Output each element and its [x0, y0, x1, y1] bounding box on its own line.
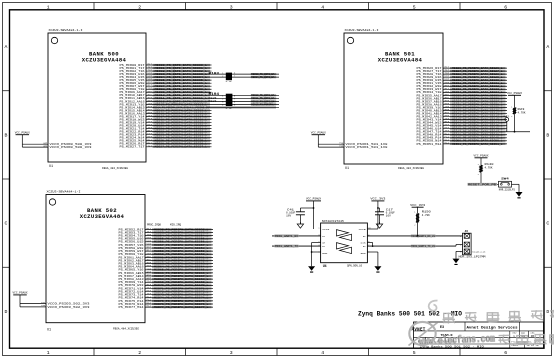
wire net MIO18 bank 500 row 18	[120, 117, 212, 121]
wire net MIO05 bank 500 row 5	[120, 78, 212, 82]
svg-text:VCC_3V3: VCC_3V3	[410, 204, 426, 207]
IC BANK 501 title	[378, 51, 423, 64]
wire net MIO24 bank 500 row 24	[120, 135, 212, 139]
svg-text:XCZU3-SBVA484-1-I: XCZU3-SBVA484-1-I	[47, 190, 82, 193]
title block frame	[414, 322, 544, 348]
border row ticks left	[3, 91, 10, 268]
wire net MIO38 bank 501 row 12	[417, 102, 508, 106]
ground (C17)	[376, 222, 382, 228]
svg-text:3: 3	[230, 5, 233, 11]
wire net MIO45 bank 501 row 19	[417, 123, 508, 127]
wire net MIO68 bank 502 row 16	[119, 277, 214, 281]
wire net MIO49 bank 501 row 23	[417, 135, 508, 139]
svg-text:U1: U1	[47, 328, 51, 332]
svg-text:6: 6	[504, 350, 507, 356]
svg-text:5: 5	[413, 350, 416, 356]
wire net MIO27 bank 501 row 1	[417, 69, 508, 73]
wire net MIO40 bank 501 row 14	[417, 108, 508, 112]
svg-text:VCC_3V3: VCC_3V3	[370, 198, 386, 201]
wire net MIO0_UART1_RX into U4 A1	[272, 235, 321, 238]
wire net MIO36 bank 501 row 10	[417, 96, 508, 100]
ground (U4 right)	[374, 266, 381, 272]
wire net MIO06 bank 500 row 6	[120, 81, 212, 85]
svg-text:AVNET: AVNET	[412, 329, 426, 333]
svg-text:VCCO_PSIO0_500_3V3: VCCO_PSIO0_500_3V3	[50, 146, 93, 149]
wire net MIO58 bank 502 row 6	[119, 246, 214, 250]
svg-text:4: 4	[321, 5, 324, 11]
Avnet logo	[409, 322, 438, 346]
svg-text:MIO0_UART1_RX: MIO0_UART1_RX	[275, 235, 298, 238]
wire net MIO39 bank 501 row 13	[417, 105, 508, 109]
wire net MIO04 bank 500 row 4	[120, 75, 280, 79]
border column ticks bottom	[94, 348, 460, 355]
wire net MIO34 bank 501 row 8	[417, 90, 508, 94]
wire net MIO02 bank 500 row 2	[120, 69, 212, 73]
wire U4 right GND pin to ground	[367, 252, 378, 266]
svg-text:MIO_UART_LS_1V8: MIO_UART_LS_1V8	[472, 250, 485, 253]
svg-text:XCZU3EGVA484: XCZU3EGVA484	[378, 57, 423, 64]
wire net MIO30 bank 501 row 4	[417, 78, 508, 82]
wire net MIO35 bank 501 row 9	[417, 93, 508, 97]
wire net MIO53 bank 502 row 1	[119, 230, 214, 234]
power symbol VCC_3V3 (U4 B side)	[370, 198, 386, 229]
wire net MIO11 bank 500 row 11	[120, 96, 280, 100]
wire net MIO1_UART1_TX into U4 A2	[272, 245, 321, 248]
wire net MIO31 bank 501 row 5	[417, 81, 508, 85]
svg-text:XCZU3EGVA484: XCZU3EGVA484	[82, 57, 127, 64]
IC U1 BANK 502 body	[46, 195, 145, 323]
capacitor C41	[286, 208, 305, 217]
svg-text:QFN_SON_10: QFN_SON_10	[347, 265, 363, 268]
power symbol VCC_PSAUX (U4 A side)	[306, 198, 322, 229]
svg-text:XCZU3EGVA484: XCZU3EGVA484	[80, 213, 125, 220]
svg-text:D: D	[5, 309, 8, 315]
U4 buffer triangles channel 1	[337, 230, 352, 241]
wire net MIO08 bank 500 row 8	[120, 87, 212, 91]
svg-text:U4: U4	[323, 264, 327, 268]
svg-text:C: C	[5, 221, 8, 227]
power symbol VCC_PSAUX (R140 pullup)	[474, 155, 490, 166]
resistor R140	[478, 163, 494, 176]
svg-text:Avnet Design Services: Avnet Design Services	[467, 326, 518, 331]
svg-text:PS_MIO77_M14: PS_MIO77_M14	[119, 306, 145, 309]
wire VCCA branch to C41	[300, 207, 314, 212]
svg-text:U1: U1	[49, 165, 53, 169]
wire net MIO67 bank 502 row 15	[119, 274, 214, 278]
wire net MIO29 bank 501 row 3	[417, 75, 508, 79]
resistor R150	[414, 211, 431, 227]
IC U4 SN74AVC2T245 body	[321, 220, 368, 268]
wire net MIO55 bank 502 row 3	[119, 236, 214, 240]
svg-text:MIO1_UART1_TX: MIO1_UART1_TX	[275, 245, 298, 248]
svg-text:VCCB: VCCB	[359, 228, 367, 231]
wire net MIO00 bank 500 row 0	[120, 63, 212, 67]
power symbol VCC_PSAUX (R23 pullup)	[507, 92, 523, 108]
svg-text:6: 6	[504, 5, 507, 11]
svg-text:1: 1	[47, 5, 50, 11]
ground (U4 left)	[308, 266, 315, 272]
wire net MIO03 bank 500 row 3	[120, 72, 280, 76]
wire VCCB branch to C17	[377, 207, 380, 212]
svg-text:RESET_POR_PB: RESET_POR_PB	[468, 183, 496, 186]
svg-text:Sheet: Sheet	[511, 344, 519, 347]
wire net MIO25 bank 500 row 25	[120, 138, 212, 142]
svg-text:VCCO_PSIO1_501_1V8: VCCO_PSIO1_501_1V8	[346, 146, 389, 149]
wire VCCO feed bank502 pin2	[20, 304, 90, 309]
wire net MIO19 bank 500 row 19	[120, 120, 212, 124]
svg-text:4.70K: 4.70K	[518, 112, 527, 115]
border column numbers bottom	[47, 350, 508, 356]
border row letters left	[5, 44, 8, 315]
wire net MIO76 bank 502 row 24	[119, 301, 214, 305]
svg-text:MIO04_PS_QSPI_DA: MIO04_PS_QSPI_DA	[251, 76, 274, 79]
wire net MIO56 bank 502 row 4	[119, 239, 214, 243]
wire VCCO feed bank501 pin2	[318, 144, 388, 149]
svg-text:VCC_PSAUX: VCC_PSAUX	[507, 92, 523, 95]
ground (SW4)	[516, 192, 523, 198]
resistor network R104	[209, 92, 237, 110]
wire net MIO64 bank 502 row 12	[119, 264, 214, 268]
wire net MIO60 bank 502 row 8	[119, 252, 214, 256]
wire net MIO22 bank 500 row 22	[120, 129, 212, 133]
border column ticks top	[94, 3, 460, 10]
wire net MIO01 bank 500 row 1	[120, 66, 212, 70]
wire net MIO26 bank 501 row 0	[417, 66, 508, 70]
svg-text:5: 5	[413, 5, 416, 11]
svg-text:GND: GND	[361, 252, 367, 255]
wire net MIO07 bank 500 row 7	[120, 84, 212, 88]
wire net MIO75 bank 502 row 23	[119, 298, 214, 302]
wire net MIO57 bank 502 row 5	[119, 242, 214, 246]
svg-text:4.7K: 4.7K	[226, 107, 233, 110]
resistor R23	[511, 105, 526, 118]
svg-text:D: D	[546, 309, 549, 315]
svg-text:16V: 16V	[286, 215, 292, 218]
svg-text:A: A	[546, 44, 549, 50]
svg-text:C31: C31	[504, 115, 511, 118]
svg-text:MIO1_UART1_TX_LS: MIO1_UART1_TX_LS	[411, 245, 435, 248]
svg-text:1: 1	[47, 350, 50, 356]
svg-text:R106: R106	[209, 100, 218, 103]
svg-text:3: 3	[230, 350, 233, 356]
border column numbers top	[47, 5, 508, 11]
svg-text:VCC_PSAUX: VCC_PSAUX	[13, 292, 29, 295]
wire net MIO37 bank 501 row 11	[417, 99, 508, 103]
wire R140 to PS_POR_B net	[480, 172, 482, 185]
svg-text:FBGA_484_XCZU3EG: FBGA_484_XCZU3EG	[113, 328, 139, 331]
wire net MIO54 bank 502 row 2	[119, 233, 214, 237]
wire J6 pin3 to ground	[456, 251, 463, 258]
wire net MIO77 bank 502 row 25	[119, 305, 214, 309]
svg-text:J6: J6	[465, 230, 469, 233]
border row letters right	[546, 44, 549, 315]
svg-text:PS_MIO51_M14: PS_MIO51_M14	[417, 143, 443, 146]
svg-text:KMR_221GLFS: KMR_221GLFS	[499, 188, 516, 191]
svg-text:2: 2	[138, 5, 141, 11]
wire net MIO51 bank 501 row 25	[417, 141, 508, 145]
svg-text:HDR_1X3_1P27MM: HDR_1X3_1P27MM	[459, 256, 487, 259]
wire net MIO63 bank 502 row 11	[119, 261, 214, 265]
svg-text:E3: E3	[440, 326, 444, 330]
wire net MIO16 bank 500 row 16	[120, 111, 212, 115]
wire C17 to ground	[379, 215, 381, 224]
wire net MIO47 bank 501 row 21	[417, 129, 531, 133]
wire net MIO33 bank 501 row 7	[417, 87, 508, 91]
wire net MIO1_UART1_TX_LS U4 B2 to J6 pin2	[367, 245, 462, 249]
svg-text:MIO_IRQ: MIO_IRQ	[170, 224, 182, 227]
svg-text:VCC_PSAUX: VCC_PSAUX	[15, 131, 31, 134]
watermark elecfans (decorative)	[419, 301, 554, 348]
svg-text:4: 4	[321, 350, 324, 356]
testpoint TP1	[504, 115, 511, 132]
wire net MIO15 bank 500 row 15	[120, 108, 212, 112]
wire VCCO feed bank500 pin1	[22, 142, 92, 147]
power symbol VCC_PSAUX (bank 500)	[15, 131, 31, 144]
wire net MIO70 bank 502 row 18	[119, 283, 214, 287]
svg-text:C: C	[546, 221, 549, 227]
U4 pin names	[318, 227, 371, 256]
title block texts	[418, 326, 540, 349]
wire U4 VCCB to VCC_3V3	[367, 228, 378, 230]
svg-text:MIO51_PS_PERIPH_DATA_SIG51_L: MIO51_PS_PERIPH_DATA_SIG51_L	[452, 143, 503, 146]
wire net MIO74 bank 502 row 22	[119, 295, 214, 299]
power symbol VCC_PSAUX (bank 501)	[311, 131, 327, 144]
wire net MIO46 bank 501 row 20	[417, 126, 508, 130]
wire C41 to ground	[299, 215, 301, 224]
wire net MIO20 bank 500 row 20	[120, 123, 212, 127]
svg-text:4.70K: 4.70K	[422, 214, 431, 217]
svg-text:SW4: SW4	[501, 178, 509, 181]
svg-text:DIR: DIR	[361, 242, 367, 245]
svg-text:B: B	[546, 132, 549, 138]
wire net MIO69 bank 502 row 17	[119, 280, 214, 284]
svg-text:R104: R104	[209, 92, 220, 96]
svg-text:MIO0_UART1_RX_LS: MIO0_UART1_RX_LS	[411, 235, 435, 238]
switch SW4	[499, 178, 516, 192]
svg-text:B: B	[5, 132, 8, 138]
wire net MIO09 bank 500 row 9	[120, 90, 212, 94]
svg-text:XCZU3-SBVA484-1-I: XCZU3-SBVA484-1-I	[49, 29, 84, 32]
wire VCCO feed bank500 pin2	[22, 144, 92, 149]
wire net MIO44 bank 501 row 18	[417, 120, 508, 124]
wire net MIO48 bank 501 row 22	[417, 132, 508, 136]
wire net MIO13 bank 500 row 13	[120, 102, 280, 106]
wire VCCO feed bank501 pin1	[318, 142, 388, 147]
wire net MIO65 bank 502 row 13	[119, 267, 214, 271]
wire net MIO17 bank 500 row 17	[120, 114, 212, 118]
wire U4 DIR tie	[367, 243, 373, 248]
svg-text:SN74AVC2T245: SN74AVC2T245	[322, 220, 345, 223]
svg-text:A: A	[5, 44, 8, 50]
IC BANK 500 title	[82, 51, 127, 64]
wire VCCO feed bank502 pin1	[20, 301, 90, 306]
svg-text:VCCO_PSIO3_502_3V3: VCCO_PSIO3_502_3V3	[48, 306, 91, 309]
border row ticks right	[544, 91, 552, 268]
resistor network R103	[209, 71, 237, 83]
svg-text:MIO77_PS_PERIPH_DATA_SIG77_L: MIO77_PS_PERIPH_DATA_SIG77_L	[154, 306, 209, 309]
wire net MIO10 bank 500 row 10	[120, 93, 280, 97]
svg-text:PS_MIO27_T17: PS_MIO27_T17	[120, 146, 146, 149]
power symbol VCC_3V3 (R150)	[410, 204, 426, 213]
capacitor C17	[375, 208, 395, 217]
wire U4 OE to ground	[312, 243, 321, 267]
svg-text:VCC_PSAUX: VCC_PSAUX	[311, 131, 327, 134]
wire net MIO50 bank 501 row 24	[417, 138, 508, 142]
wire net MIO26 bank 500 row 26	[120, 141, 212, 145]
svg-text:MIO13_PS_PERIPH_: MIO13_PS_PERIPH_	[251, 103, 274, 106]
wire net MIO28 bank 501 row 2	[417, 72, 508, 76]
svg-text:GND: GND	[322, 252, 328, 255]
wire net MIO61 bank 502 row 9	[119, 255, 214, 259]
wire U4 GND pin to ground	[311, 251, 321, 253]
svg-text:16V: 16V	[386, 215, 392, 218]
svg-text:MIO27_PS_PERIPH_DATA_SIG27_L: MIO27_PS_PERIPH_DATA_SIG27_L	[155, 146, 208, 149]
wire net MIO23 bank 500 row 23	[120, 132, 212, 136]
wire net MIO0_UART1_RX_LS U4 B1 to J6 pin1	[367, 235, 462, 238]
svg-text:4.7K: 4.7K	[226, 80, 233, 83]
wire net MIO73 bank 502 row 21	[119, 292, 214, 296]
wire net PS_POR_B to SW4	[468, 183, 499, 186]
U4 buffer triangles channel 2	[337, 243, 352, 254]
wire net MIO43 bank 501 row 17	[417, 117, 508, 121]
wire net MIO59 bank 502 row 7	[119, 249, 214, 253]
wire R23 to PS_SRST_B net	[514, 114, 516, 132]
power symbol VCC_PSAUX (bank 502)	[13, 292, 29, 304]
ground (J6)	[453, 259, 460, 265]
wire net MIO27 bank 500 row 27	[120, 144, 212, 148]
svg-text:R150: R150	[422, 211, 431, 214]
svg-text:XCZU3-SBVA484-1-I: XCZU3-SBVA484-1-I	[345, 29, 380, 32]
wire net MIO52 bank 502 row 0	[119, 227, 214, 231]
wire net MIO72 bank 502 row 20	[119, 289, 214, 293]
svg-text:U1: U1	[345, 167, 349, 171]
IC U1 BANK 500 body	[48, 33, 146, 162]
wire net MIO66 bank 502 row 14	[119, 270, 214, 274]
IC U1 BANK 501 body	[344, 33, 443, 164]
connector J6	[460, 230, 471, 255]
wire SW4 to ground	[512, 184, 520, 192]
svg-text:2: 2	[138, 350, 141, 356]
svg-text:R103: R103	[209, 71, 220, 75]
svg-text:4.70K: 4.70K	[485, 167, 494, 170]
svg-text:VCC_PSAUX: VCC_PSAUX	[474, 155, 490, 158]
wire net MIO12 bank 500 row 12	[120, 99, 280, 103]
wire net MIO42 bank 501 row 16	[417, 114, 508, 118]
wire net MIO41 bank 501 row 15	[417, 111, 508, 115]
wire net MIO14 bank 500 row 14	[120, 105, 280, 109]
wire net MIO21 bank 500 row 21	[120, 126, 212, 130]
IC BANK 502 title	[80, 207, 125, 220]
svg-text:FBGA_484_XCZU3EG: FBGA_484_XCZU3EG	[398, 167, 424, 170]
wire net MIO32 bank 501 row 6	[417, 84, 508, 88]
wire net MIO71 bank 502 row 19	[119, 286, 214, 290]
wire net MIO62 bank 502 row 10	[119, 258, 214, 262]
svg-text:VCC_PSAUX: VCC_PSAUX	[306, 198, 322, 201]
svg-text:10 of 25: 10 of 25	[527, 344, 540, 347]
ground (C41)	[297, 222, 303, 228]
svg-text:VCCA: VCCA	[322, 228, 330, 231]
net label PROC_IRQ above first 502 row	[147, 224, 182, 227]
svg-text:PROC_IRQ0: PROC_IRQ0	[147, 224, 162, 227]
svg-text:FBGA_484_XCZU3EG: FBGA_484_XCZU3EG	[102, 167, 128, 170]
wire R150 to RX_LS net	[417, 223, 419, 237]
